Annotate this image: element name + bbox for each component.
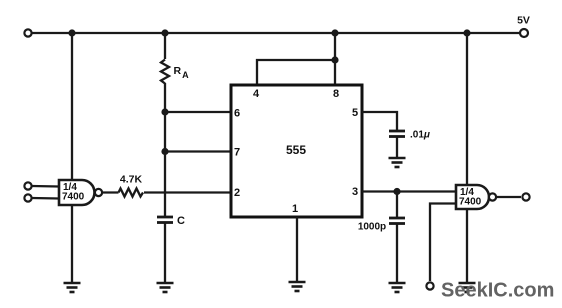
terminal U2 input B xyxy=(426,282,433,289)
junction rail-RA xyxy=(161,29,168,36)
junction RA-pin6 xyxy=(161,108,168,115)
junction pin8-pin4 xyxy=(331,56,338,63)
capacitor C xyxy=(157,217,173,223)
junction rail-pin8 xyxy=(331,29,338,36)
svg-text:8: 8 xyxy=(333,88,339,100)
svg-text:7400: 7400 xyxy=(62,192,85,203)
inverter bubble U2 xyxy=(489,193,496,200)
ground below left 7400 xyxy=(64,283,81,292)
terminal 5V right xyxy=(520,29,528,37)
ground below pin 1 xyxy=(289,282,306,291)
wire C2 to ground xyxy=(396,137,398,159)
resistor R2 4.7K xyxy=(119,189,144,197)
svg-text:4: 4 xyxy=(253,88,260,100)
wire U2 input B xyxy=(430,204,456,282)
wire U1 output to R2 xyxy=(102,191,119,193)
ground below C xyxy=(157,283,174,292)
junction rail-right xyxy=(463,29,470,36)
svg-text:7: 7 xyxy=(234,147,240,159)
terminal U1 input B xyxy=(24,194,31,201)
wire pin 4 riser xyxy=(257,60,335,85)
wire pin 7 xyxy=(165,150,231,152)
inverter bubble U1 xyxy=(95,189,102,196)
wire pin 8 riser xyxy=(334,33,336,85)
wire pin 1 to ground xyxy=(296,217,298,282)
wire U2 output xyxy=(496,196,521,198)
wire C to ground xyxy=(164,223,166,284)
svg-text:555: 555 xyxy=(286,143,306,157)
wire pin 6 xyxy=(165,111,231,113)
svg-text:SeekIC.com: SeekIC.com xyxy=(441,280,554,302)
wire U1 input B xyxy=(32,197,59,200)
svg-text:.01μ: .01μ xyxy=(410,130,430,141)
resistor RA xyxy=(161,60,169,84)
svg-text:C: C xyxy=(177,215,185,227)
svg-text:7400: 7400 xyxy=(459,197,482,208)
wire C3 to ground xyxy=(396,224,398,284)
wire pin 3 to U2 xyxy=(362,190,456,192)
wire vertical left 7400 supply xyxy=(71,33,73,283)
nand gate U2 1/4 7400 (right) xyxy=(456,185,489,209)
junction RA-pin7 xyxy=(161,148,168,155)
terminal U1 input A xyxy=(24,182,31,189)
svg-text:3: 3 xyxy=(352,186,358,198)
wire 5V top rail xyxy=(32,32,520,34)
nand gate U1 1/4 7400 (left) xyxy=(59,180,95,205)
svg-text:6: 6 xyxy=(234,108,240,120)
terminal U2 output xyxy=(522,193,529,200)
wire pin 5 xyxy=(362,112,397,131)
wire pin3 to C3 xyxy=(396,192,398,219)
svg-text:1: 1 xyxy=(292,203,298,215)
ground below right 7400 xyxy=(459,283,476,292)
ground below C2 xyxy=(389,158,406,167)
ground below C3 xyxy=(389,283,406,292)
wire RA branch top xyxy=(164,33,166,59)
junction pin3-C3 xyxy=(393,188,400,195)
wire U1 input A xyxy=(32,185,59,188)
wire R2 to pin 2 xyxy=(144,191,231,193)
svg-text:1000p: 1000p xyxy=(358,222,386,233)
capacitor C3 1000p xyxy=(389,218,405,224)
svg-text:5: 5 xyxy=(352,107,358,119)
IC 555 timer xyxy=(231,85,362,217)
svg-text:5V: 5V xyxy=(517,15,530,27)
svg-text:2: 2 xyxy=(234,187,240,199)
capacitor C2 .01u xyxy=(389,131,405,137)
wire vertical right 7400 supply xyxy=(466,33,468,283)
svg-text:4.7K: 4.7K xyxy=(120,174,143,186)
junction rail-left xyxy=(68,29,75,36)
wire RA bottom to C xyxy=(164,83,166,217)
terminal 5V left xyxy=(24,29,31,36)
